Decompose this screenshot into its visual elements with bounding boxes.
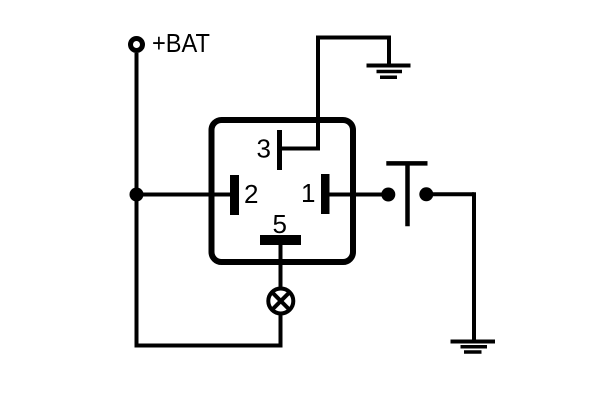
wire: pin 1 to switch <box>330 193 389 197</box>
wire: junction to pin 2 <box>137 193 233 197</box>
wire: bottom horizontal from left riser to lamp <box>135 344 283 348</box>
svg-text:1: 1 <box>301 178 315 208</box>
pin 2 contact bar <box>230 175 239 215</box>
pin 5 contact bar <box>260 235 301 245</box>
pin 1 contact bar <box>321 174 330 214</box>
switch S1 stem <box>405 163 410 226</box>
pin 3 contact bar <box>277 130 282 170</box>
svg-text:3: 3 <box>257 134 271 164</box>
wire: pin 3 horizontal <box>282 147 318 151</box>
wire: drop to top ground <box>387 36 391 65</box>
svg-text:2: 2 <box>244 179 258 209</box>
svg-text:+BAT: +BAT <box>152 28 210 58</box>
wire: top horizontal to ground <box>316 36 389 40</box>
ground (top) <box>367 66 411 78</box>
wire: pin 3 riser up <box>316 36 320 151</box>
node junction on +BAT line <box>130 188 144 202</box>
switch S1 push-button actuator bar <box>386 161 427 166</box>
lamp L1 (circle with X) <box>268 289 293 314</box>
wire: +BAT vertical down left side <box>135 53 139 348</box>
relay body U1 (rounded box) <box>212 120 354 262</box>
switch contact node (left) <box>381 188 395 202</box>
wire: pin 5 down to lamp <box>279 245 283 288</box>
terminal +BAT (open circle) <box>131 39 143 51</box>
wire: right riser down to ground <box>472 192 476 341</box>
wire: lamp to bottom rail <box>279 314 283 348</box>
svg-text:5: 5 <box>273 209 287 239</box>
switch contact node (right) <box>419 187 433 201</box>
wire: switch to right riser <box>426 192 474 196</box>
ground (bottom right) <box>451 342 496 353</box>
